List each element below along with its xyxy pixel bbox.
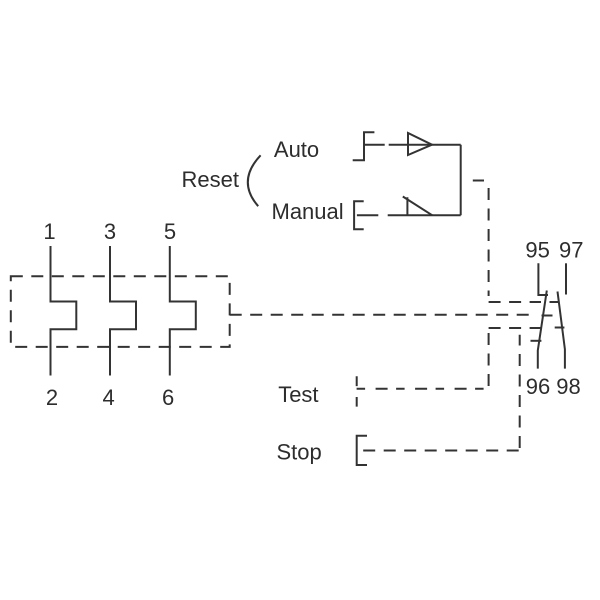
svg-text:1: 1: [43, 219, 55, 244]
reset brace arc: [248, 155, 261, 206]
auto actuator triangle: [408, 133, 432, 155]
wire corner auto-to-manual: [460, 145, 462, 216]
wire auto branch: [389, 144, 461, 146]
svg-text:6: 6: [162, 385, 174, 410]
svg-text:4: 4: [102, 385, 114, 410]
test actuator dashed bar: [356, 376, 358, 406]
stop dashed line vertical to NC arm: [519, 335, 521, 448]
svg-text:Reset: Reset: [182, 167, 239, 192]
NC contact 95 terminal with hook: [538, 263, 548, 295]
svg-text:Auto: Auto: [274, 137, 319, 162]
test dashed line to NO arm: [489, 327, 541, 329]
NO contact moving arm 97-98: [558, 292, 565, 369]
heater element pole 1 (wire 1-2): [51, 246, 77, 376]
heater element pole 2 (wire 3-4): [110, 246, 136, 376]
auto reset latch symbol: [353, 132, 385, 160]
overload relay dashed enclosure box: [11, 276, 230, 347]
reset linkage tick on NO arm: [550, 301, 560, 303]
wire manual branch: [388, 214, 461, 216]
trip linkage dashed line from enclosure to contacts: [230, 314, 533, 316]
svg-text:98: 98: [556, 374, 580, 399]
reset linkage dash stub: [473, 180, 484, 182]
test dashed line vertical: [488, 329, 490, 386]
heater element pole 3 (wire 5-6): [170, 246, 196, 376]
test dashed line horizontal: [357, 388, 489, 390]
reset linkage dashed path to NO arm: [489, 188, 541, 302]
trip linkage tick on NC arm: [542, 315, 553, 317]
svg-text:5: 5: [164, 219, 176, 244]
svg-text:2: 2: [46, 385, 58, 410]
stop pushbutton bracket: [357, 436, 367, 465]
svg-text:Manual: Manual: [272, 199, 344, 224]
svg-text:96: 96: [526, 374, 550, 399]
NC contact moving arm 95-96: [538, 291, 547, 369]
stop dashed line horizontal: [363, 450, 520, 452]
svg-text:Stop: Stop: [277, 440, 322, 465]
svg-text:3: 3: [104, 219, 116, 244]
stop tick on NC arm: [531, 340, 542, 342]
svg-text:95: 95: [525, 238, 549, 263]
test tick on NO arm: [555, 327, 565, 329]
NO contact 97 terminal: [565, 263, 567, 294]
svg-text:97: 97: [559, 238, 583, 263]
wire manual stub: [357, 214, 378, 216]
svg-text:Test: Test: [278, 382, 318, 407]
manual pushbutton bracket: [354, 201, 364, 229]
manual actuator half-triangle: [403, 197, 433, 216]
